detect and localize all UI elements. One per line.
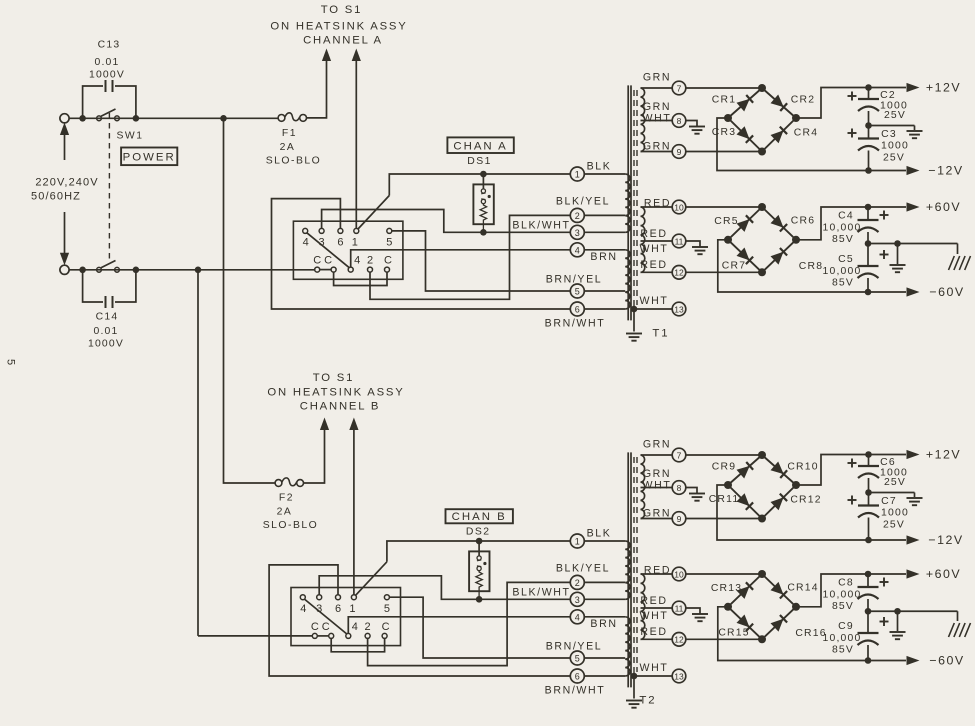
T2 pin 5 bbox=[570, 651, 584, 665]
wire tee to earth ground (B) bbox=[897, 611, 899, 631]
svg-text:0.01: 0.01 bbox=[93, 326, 118, 337]
wire bridge to +12V rail (A) bbox=[796, 88, 906, 119]
svg-text:RED: RED bbox=[640, 259, 667, 271]
jumper diagonal strip 4-4 (channel B) bbox=[304, 599, 347, 634]
terminal strip pin 6 (top row, channel B) bbox=[336, 595, 341, 600]
svg-text:9: 9 bbox=[677, 147, 682, 157]
T1 pin 9 bbox=[672, 145, 686, 159]
wire bridge to +60V rail (A) bbox=[796, 207, 906, 240]
svg-text:CR8: CR8 bbox=[799, 261, 823, 272]
wire BLK/YEL (strip pin 2 to T pin 2) bbox=[370, 215, 570, 299]
chassis ground (60V mid B) bbox=[949, 623, 955, 637]
svg-text:1: 1 bbox=[352, 237, 358, 249]
wire BLK/YEL (strip pin 2 to T pin 2) bbox=[368, 582, 571, 665]
label box CHAN A bbox=[447, 137, 513, 153]
jumper C-C (channel A) bbox=[320, 269, 331, 271]
capacitor C5 bbox=[867, 244, 869, 267]
wire T1 pin 13 bbox=[634, 308, 672, 310]
svg-text:11: 11 bbox=[675, 236, 684, 246]
wire T pin 9 to bridge bottom (A) bbox=[686, 151, 762, 153]
svg-text:50/60HZ: 50/60HZ bbox=[31, 191, 81, 203]
capacitor C7 bbox=[868, 493, 870, 506]
node bridge bottom (CR7-CR8) bbox=[758, 268, 766, 276]
node bridge top (CR1-CR2) bbox=[758, 84, 766, 92]
wire T2 pin 8 bbox=[641, 487, 673, 489]
svg-text:5: 5 bbox=[575, 654, 580, 664]
fuse F2 bbox=[275, 480, 282, 487]
switch SW1 contact a1 bbox=[97, 116, 102, 121]
arrow down to terminal J2 bbox=[64, 212, 66, 253]
wire fuse F2 output to S1 arrow bbox=[304, 430, 325, 484]
diode CR12 bbox=[762, 485, 796, 519]
diode CR16 bbox=[762, 607, 796, 640]
svg-text:2A: 2A bbox=[280, 142, 296, 153]
jumper C-C loop below strip (channel B) bbox=[331, 638, 384, 651]
svg-text:BLK/YEL: BLK/YEL bbox=[556, 563, 610, 575]
T1 pin 7 bbox=[672, 81, 686, 95]
wire mid 12V to ground (B) bbox=[869, 492, 915, 494]
svg-text:12: 12 bbox=[674, 635, 684, 645]
svg-text:CR4: CR4 bbox=[794, 128, 818, 139]
wire T2 pin 9 bbox=[641, 518, 673, 520]
svg-text:RED: RED bbox=[644, 198, 671, 210]
chassis ground (60V mid A) bbox=[949, 256, 955, 270]
svg-text:25V: 25V bbox=[883, 520, 905, 531]
node mid 60V (A) bbox=[865, 240, 872, 247]
diode CR8 bbox=[762, 240, 796, 272]
node bridge left (CR5-CR7) bbox=[724, 236, 732, 244]
wire BLK/WHT (strip pin 3 to T pin 3) bbox=[322, 210, 571, 233]
diode CR6 bbox=[762, 207, 796, 240]
arrow -12V (B) bbox=[907, 535, 920, 544]
wire T1 pin 3 to winding bbox=[584, 231, 625, 233]
svg-text:CR5: CR5 bbox=[714, 216, 738, 227]
T2 pin 10 bbox=[672, 567, 686, 581]
wire tee to earth ground (A) bbox=[897, 244, 899, 265]
svg-text:−60V: −60V bbox=[929, 654, 964, 668]
T2 primary winding 4-5-6 bbox=[625, 617, 630, 676]
T2 pin 1 bbox=[570, 534, 584, 548]
wire BLK/WHT (strip pin 3 to T pin 3) bbox=[319, 576, 570, 600]
T1 pin 5 bbox=[570, 284, 584, 298]
svg-text:CR10: CR10 bbox=[787, 462, 818, 473]
svg-text:4: 4 bbox=[300, 603, 306, 615]
svg-text:CR3: CR3 bbox=[712, 127, 736, 138]
wire T1 pin 2 to winding bbox=[584, 214, 625, 216]
svg-text:0.01: 0.01 bbox=[94, 57, 119, 68]
svg-text:TO S1: TO S1 bbox=[313, 372, 354, 384]
svg-text:3: 3 bbox=[575, 595, 580, 605]
svg-text:5: 5 bbox=[5, 359, 17, 365]
node mid 60V ground tee (A) bbox=[894, 240, 901, 247]
node bridge bottom (CR3-CR4) bbox=[758, 148, 766, 156]
arrow -60V (A) bbox=[907, 287, 920, 296]
wire bridge to -12V rail (B) bbox=[717, 485, 906, 540]
wire T pin 12 to bridge bottom (A) bbox=[686, 271, 762, 273]
capacitor C6 bbox=[868, 455, 870, 467]
T1 pin 3 bbox=[570, 225, 584, 239]
ground (12V mid A) bbox=[907, 130, 923, 132]
wire T pin 10 to bridge top (A) bbox=[686, 206, 762, 208]
svg-text:RED: RED bbox=[644, 565, 671, 577]
svg-text:7: 7 bbox=[677, 450, 682, 460]
terminal strip pin 4 (top row, channel B) bbox=[300, 595, 305, 600]
arrow from S1 (channel A arrow 2) bbox=[352, 49, 361, 62]
node AC bottom / channel B feed bbox=[195, 267, 202, 274]
arrow to S1 (channel A arrow 1) bbox=[322, 49, 331, 62]
jumper C-C loop below strip (channel A) bbox=[334, 272, 387, 285]
svg-text:85V: 85V bbox=[832, 645, 854, 656]
svg-text:BRN: BRN bbox=[590, 618, 617, 630]
svg-text:C13: C13 bbox=[98, 40, 121, 51]
svg-text:BRN/WHT: BRN/WHT bbox=[545, 318, 606, 330]
node C7 bottom bbox=[865, 537, 872, 544]
plus sign C8 bbox=[880, 581, 889, 583]
svg-text:C: C bbox=[322, 621, 330, 633]
wire T pin 7 to bridge top (A) bbox=[686, 87, 762, 89]
wire T2 pin 7 bbox=[641, 454, 673, 456]
arrow -60V (B) bbox=[907, 656, 920, 665]
svg-text:GRN: GRN bbox=[643, 468, 671, 480]
arrow to S1 (channel B arrow 1) bbox=[320, 418, 329, 431]
wire T1 pin 11 to ground bbox=[686, 241, 700, 247]
wire T2 pin 5 to winding bbox=[584, 657, 625, 659]
svg-text:−12V: −12V bbox=[928, 164, 963, 178]
wire T2 pin 10 bbox=[641, 573, 673, 575]
ground (T1 pin 11) bbox=[692, 246, 708, 248]
wire T1 pin 4 to winding bbox=[584, 249, 625, 251]
capacitor C13 bbox=[83, 86, 103, 118]
node C2 top bbox=[865, 84, 872, 91]
node C9 bottom bbox=[865, 657, 872, 664]
switch SW1 contact b2 bbox=[115, 267, 120, 272]
plus sign C4 bbox=[880, 214, 889, 216]
svg-text:F1: F1 bbox=[282, 128, 297, 139]
svg-text:C: C bbox=[324, 255, 332, 267]
T2 core bbox=[627, 452, 629, 687]
svg-text:BLK/WHT: BLK/WHT bbox=[512, 220, 570, 232]
wire mid 60V to grounds (A) bbox=[868, 243, 958, 245]
svg-text:CHAN A: CHAN A bbox=[453, 141, 507, 153]
T1 secondary winding 10-11-12 bbox=[641, 207, 645, 272]
plus sign C7 bbox=[848, 499, 857, 501]
svg-text:CR7: CR7 bbox=[722, 261, 746, 272]
svg-text:CR2: CR2 bbox=[791, 95, 815, 106]
wire T2 pin 11 bbox=[641, 607, 673, 609]
svg-text:WHT: WHT bbox=[643, 113, 672, 125]
wire T2 pin 11 to ground bbox=[686, 608, 700, 614]
svg-text:+60V: +60V bbox=[926, 200, 961, 214]
node DS2 top bbox=[476, 538, 483, 545]
node mid 12V (A) bbox=[865, 122, 872, 129]
node DS1 bottom bbox=[480, 229, 487, 236]
ground (T2 shield) bbox=[626, 700, 642, 702]
svg-text:9: 9 bbox=[677, 514, 682, 524]
wire T1 pin 10 bbox=[641, 206, 673, 208]
wire BRN (strip pin 4 to T pin 4) bbox=[348, 617, 570, 634]
diode CR4 bbox=[762, 118, 796, 152]
capacitor C2 bbox=[868, 88, 870, 100]
svg-text:WHT: WHT bbox=[640, 662, 669, 674]
terminal strip pin 4 (top row, channel A) bbox=[303, 228, 308, 233]
svg-text:8: 8 bbox=[677, 116, 682, 126]
wire shield to ground bbox=[633, 676, 635, 699]
svg-text:GRN: GRN bbox=[643, 141, 671, 153]
plus sign C9 bbox=[880, 621, 889, 623]
svg-text:2: 2 bbox=[365, 621, 371, 633]
wire BLK (strip pin 1 to T pin 1) bbox=[356, 562, 387, 596]
resistor in DS2 bbox=[476, 571, 482, 600]
svg-text:C9: C9 bbox=[838, 621, 854, 632]
svg-text:1000: 1000 bbox=[881, 508, 909, 519]
T2 pin 2 bbox=[570, 575, 584, 589]
terminal strip pin C (bottom row, channel B) bbox=[312, 633, 317, 638]
terminal strip pin 5 (top row, channel A) bbox=[387, 228, 392, 233]
svg-text:+60V: +60V bbox=[926, 567, 961, 581]
T2 pin 4 bbox=[570, 610, 584, 624]
switch SW1 blade b bbox=[101, 261, 116, 268]
svg-text:10,000: 10,000 bbox=[823, 223, 862, 234]
wire T1 pin 8 to ground bbox=[686, 121, 697, 127]
svg-text:1000: 1000 bbox=[881, 141, 909, 152]
svg-text:C4: C4 bbox=[838, 211, 854, 222]
arrow +12V (B) bbox=[907, 450, 920, 459]
node mid 12V (B) bbox=[865, 489, 872, 496]
arrow -12V (A) bbox=[907, 166, 920, 175]
svg-text:CHAN B: CHAN B bbox=[452, 511, 507, 523]
svg-text:BRN/WHT: BRN/WHT bbox=[545, 685, 606, 697]
terminal strip pin 5 (top row, channel B) bbox=[384, 595, 389, 600]
node C5 bottom bbox=[865, 289, 872, 296]
svg-text:85V: 85V bbox=[832, 278, 854, 289]
svg-text:85V: 85V bbox=[832, 234, 854, 245]
capacitor C8 bbox=[867, 574, 869, 587]
wire feed to F2 (vertical) bbox=[224, 118, 275, 483]
svg-text:WHT: WHT bbox=[643, 480, 672, 492]
node AC top / C13 right bbox=[133, 115, 140, 122]
wire T1 pin 7 bbox=[641, 87, 673, 89]
svg-text:C3: C3 bbox=[881, 129, 897, 140]
svg-text:WHT: WHT bbox=[640, 610, 669, 622]
svg-text:3: 3 bbox=[575, 228, 580, 238]
wire T2 pin 1 to winding bbox=[584, 540, 625, 542]
wire T1 pin 8 bbox=[641, 120, 673, 122]
svg-text:GRN: GRN bbox=[643, 439, 671, 451]
svg-text:BLK: BLK bbox=[587, 528, 612, 540]
svg-text:8: 8 bbox=[677, 483, 682, 493]
diode CR7 bbox=[728, 240, 762, 272]
wire BRN/WHT (strip pin 6 to T pin 6) bbox=[269, 565, 570, 676]
svg-text:10: 10 bbox=[674, 202, 684, 212]
terminal strip pin 1 (top row, channel B) bbox=[351, 595, 356, 600]
wire mid 60V to grounds (B) bbox=[868, 610, 958, 612]
T1 pin 11 bbox=[672, 234, 686, 248]
node T1 shield / pin 13 bbox=[631, 306, 638, 313]
terminal strip pin C (bottom row, channel A) bbox=[331, 267, 336, 272]
svg-text:DS1: DS1 bbox=[467, 156, 492, 167]
svg-text:4: 4 bbox=[303, 237, 309, 249]
terminal strip pin 2 (bottom row, channel B) bbox=[365, 633, 370, 638]
svg-text:C: C bbox=[313, 255, 321, 267]
arrow up to terminal J1 bbox=[60, 123, 69, 136]
svg-text:1: 1 bbox=[575, 537, 580, 547]
wire mid 12V to ground (A) bbox=[869, 125, 915, 127]
svg-text:25V: 25V bbox=[884, 110, 906, 121]
jumper C-C (channel B) bbox=[317, 635, 328, 637]
terminal strip pin 4 (bottom row, channel B) bbox=[346, 633, 351, 638]
svg-text:CHANNEL A: CHANNEL A bbox=[303, 34, 383, 46]
node mid 60V (B) bbox=[865, 608, 872, 615]
T2 pin 12 bbox=[672, 633, 686, 647]
svg-text:CR13: CR13 bbox=[711, 583, 742, 594]
plus sign C6 bbox=[848, 462, 857, 464]
terminal strip pin 3 (top row, channel B) bbox=[317, 595, 322, 600]
arrow +60V (B) bbox=[907, 569, 920, 578]
svg-text:10: 10 bbox=[674, 569, 684, 579]
wire T1 pin 12 bbox=[641, 271, 673, 273]
capacitor C4 bbox=[867, 207, 869, 220]
svg-text:10,000: 10,000 bbox=[823, 590, 862, 601]
T1 pin 1 bbox=[570, 167, 584, 181]
T2 pin 7 bbox=[672, 448, 686, 462]
T1 pin 6 bbox=[570, 302, 584, 316]
svg-text:+12V: +12V bbox=[926, 448, 961, 462]
svg-text:4: 4 bbox=[354, 255, 360, 267]
wire T pin 10 to bridge top (B) bbox=[686, 573, 762, 575]
svg-text:5: 5 bbox=[575, 287, 580, 297]
label box POWER bbox=[121, 148, 177, 166]
node AC top / C13 left bbox=[79, 115, 86, 122]
svg-text:WHT: WHT bbox=[640, 243, 669, 255]
svg-text:7: 7 bbox=[677, 83, 682, 93]
T2 electrostatic shield (dashed) bbox=[633, 457, 635, 676]
diode CR13 bbox=[728, 574, 762, 607]
svg-text:BRN/YEL: BRN/YEL bbox=[546, 274, 603, 286]
switch SW1 blade a bbox=[101, 109, 116, 116]
svg-text:C6: C6 bbox=[880, 457, 896, 468]
terminal strip pin C (bottom row, channel A) bbox=[315, 267, 320, 272]
wire AC line bottom bbox=[69, 269, 315, 271]
wire BLK (strip pin 1 to T pin 1) bbox=[358, 196, 389, 230]
svg-text:GRN: GRN bbox=[643, 101, 671, 113]
T1 primary winding 4-5-6 bbox=[625, 250, 630, 309]
svg-text:RED: RED bbox=[640, 595, 667, 607]
wire T2 pin 4 to winding bbox=[584, 616, 625, 618]
node DS2 bottom bbox=[476, 596, 483, 603]
wire T2 pin 13 bbox=[634, 675, 672, 677]
wire bridge to -12V rail (A) bbox=[717, 118, 906, 171]
terminal strip pin C (bottom row, channel B) bbox=[382, 633, 387, 638]
T2 pin 13 bbox=[672, 669, 686, 683]
neon lamp DS2 bbox=[478, 541, 480, 556]
node AC top / F2 feed bbox=[220, 115, 227, 122]
T1 core bbox=[627, 85, 629, 320]
svg-text:C2: C2 bbox=[880, 90, 896, 101]
svg-text:11: 11 bbox=[675, 603, 684, 613]
label box CHAN B bbox=[446, 509, 513, 523]
wire bridge to +12V rail (B) bbox=[796, 455, 906, 486]
diode CR1 bbox=[728, 88, 762, 118]
node bridge left (CR9-CR11) bbox=[724, 481, 732, 489]
jumper diagonal strip 4-4 (channel A) bbox=[307, 233, 350, 268]
plus sign C2 bbox=[848, 95, 857, 97]
svg-text:1: 1 bbox=[575, 170, 580, 180]
T2 pin 11 bbox=[672, 601, 686, 615]
capacitor C9 bbox=[867, 611, 869, 633]
node bridge right (CR10-CR12) bbox=[792, 481, 800, 489]
wire BRN/WHT (strip pin 6 to T pin 6) bbox=[272, 199, 571, 309]
wire BRN/YEL (strip pin 5 to T pin 5) bbox=[392, 231, 571, 291]
svg-text:POWER: POWER bbox=[123, 152, 176, 164]
wire AC line top bbox=[69, 117, 278, 119]
wire T2 pin 6 to winding bbox=[584, 675, 625, 677]
T2 pin 3 bbox=[570, 592, 584, 606]
plus sign C5 bbox=[880, 254, 889, 256]
svg-text:RED: RED bbox=[640, 228, 667, 240]
T1 electrostatic shield (dashed) bbox=[633, 90, 635, 309]
svg-text:13: 13 bbox=[674, 304, 684, 314]
T1 pin 4 bbox=[570, 243, 584, 257]
svg-text:10,000: 10,000 bbox=[823, 266, 862, 277]
T1 pin 12 bbox=[672, 266, 686, 280]
svg-text:85V: 85V bbox=[832, 601, 854, 612]
node C6 top bbox=[865, 451, 872, 458]
node bridge top (CR9-CR10) bbox=[758, 451, 766, 459]
svg-text:C7: C7 bbox=[881, 496, 897, 507]
wire BRN (strip pin 4 to T pin 4) bbox=[351, 250, 571, 267]
svg-text:1000V: 1000V bbox=[89, 70, 125, 81]
svg-text:RED: RED bbox=[640, 626, 667, 638]
wire T1 pin 5 to winding bbox=[584, 290, 625, 292]
svg-text:BRN/YEL: BRN/YEL bbox=[546, 641, 603, 653]
svg-text:ON HEATSINK ASSY: ON HEATSINK ASSY bbox=[267, 387, 404, 399]
svg-text:2A: 2A bbox=[277, 507, 293, 518]
input terminal J1 (line) bbox=[60, 114, 69, 123]
wire T2 pin 3 to winding bbox=[584, 598, 625, 600]
wire T pin 7 to bridge top (B) bbox=[686, 454, 762, 456]
ground (60V mid earth B) bbox=[890, 631, 906, 633]
ground (T2 pin 8) bbox=[689, 493, 705, 495]
node mid 60V ground tee (B) bbox=[894, 608, 901, 615]
svg-text:13: 13 bbox=[674, 671, 684, 681]
svg-text:ON HEATSINK ASSY: ON HEATSINK ASSY bbox=[270, 21, 407, 33]
terminal strip TB (channel A) box bbox=[293, 221, 403, 279]
wire from S1 to strip pin 1 (channel B) bbox=[353, 430, 355, 595]
T1 pin 8 bbox=[672, 114, 686, 128]
T2 pin 9 bbox=[672, 512, 686, 526]
node bridge right (CR6-CR8) bbox=[792, 236, 800, 244]
svg-text:CR11: CR11 bbox=[709, 494, 740, 505]
node bridge top (CR13-CR14) bbox=[758, 570, 766, 578]
svg-text:GRN: GRN bbox=[643, 72, 671, 84]
svg-text:T2: T2 bbox=[639, 695, 656, 707]
node DS1 top bbox=[480, 171, 487, 178]
terminal strip pin 1 (top row, channel A) bbox=[354, 228, 359, 233]
svg-text:DS2: DS2 bbox=[466, 527, 491, 538]
switch SW1 contact a2 bbox=[115, 116, 120, 121]
svg-text:TO S1: TO S1 bbox=[321, 4, 362, 16]
svg-text:6: 6 bbox=[575, 672, 580, 682]
node bridge bottom (CR11-CR12) bbox=[758, 515, 766, 523]
capacitor C3 bbox=[868, 126, 870, 139]
T2 secondary winding 7-8-9 bbox=[641, 455, 645, 519]
wire from S1 to strip pin 1 (channel A) bbox=[355, 61, 357, 229]
svg-text:C8: C8 bbox=[838, 578, 854, 589]
node bridge right (CR14-CR16) bbox=[792, 603, 800, 611]
diode CR5 bbox=[728, 207, 762, 240]
svg-text:1000V: 1000V bbox=[88, 339, 124, 350]
node T2 shield / pin 13 bbox=[631, 673, 638, 680]
